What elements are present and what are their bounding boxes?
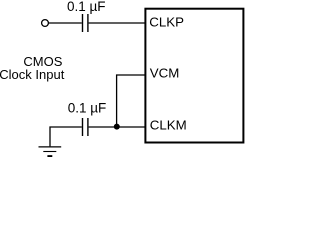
wire: C2 to CLKM pin bbox=[89, 126, 145, 128]
svg-text:0.1 µF: 0.1 µF bbox=[68, 101, 107, 116]
svg-text:CLKM: CLKM bbox=[150, 118, 187, 133]
capacitor C2 bbox=[83, 118, 88, 136]
ground bbox=[39, 147, 62, 156]
svg-text:0.1 µF: 0.1 µF bbox=[67, 0, 106, 14]
wire: terminal to C1 bbox=[49, 22, 82, 24]
label: CMOS Clock Input bbox=[0, 54, 65, 82]
node: VCM/CLKM junction bbox=[114, 124, 120, 130]
svg-text:CLKP: CLKP bbox=[149, 14, 184, 29]
svg-text:VCM: VCM bbox=[150, 66, 180, 81]
wire: C1 to CLKP pin bbox=[89, 22, 145, 24]
svg-text:Clock Input: Clock Input bbox=[0, 67, 65, 82]
IC U1 bbox=[145, 9, 243, 143]
wire: ground to C2 bbox=[50, 127, 82, 146]
capacitor C1 bbox=[83, 14, 88, 32]
input terminal J1 bbox=[42, 20, 49, 27]
wire: VCM pin to junction bbox=[117, 75, 145, 127]
